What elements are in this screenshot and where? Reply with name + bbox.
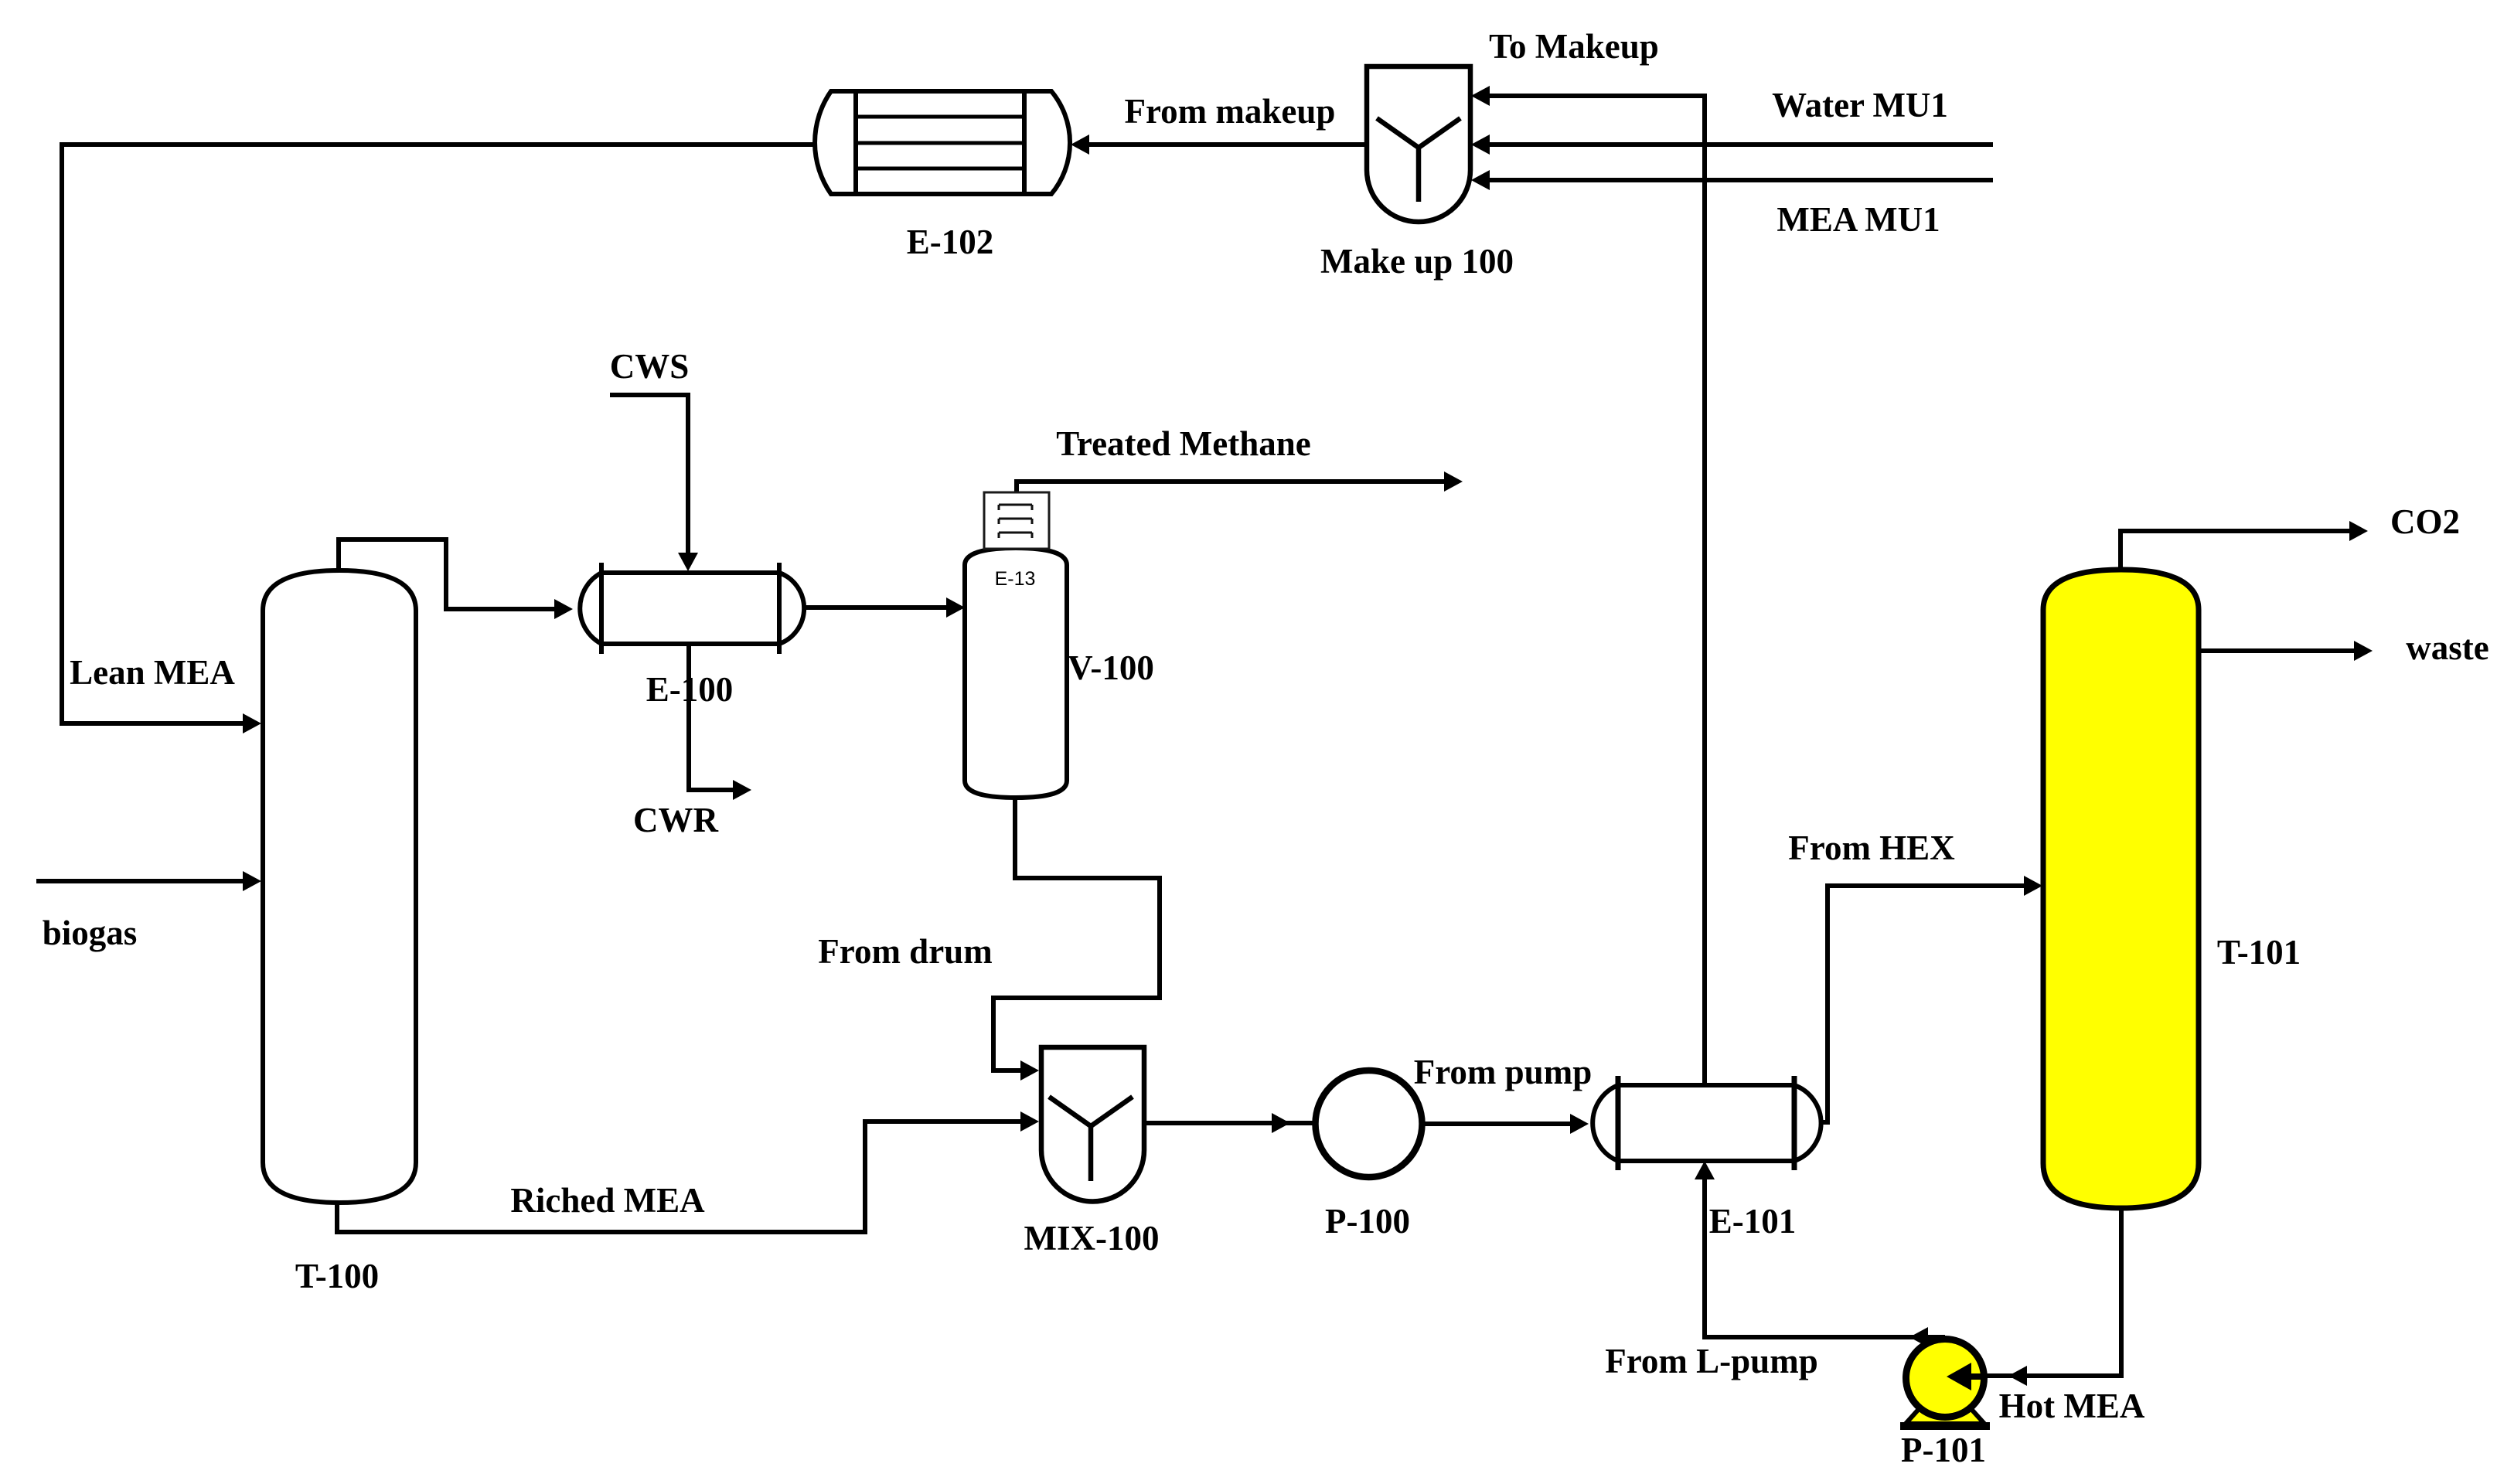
svg-text:From drum: From drum — [818, 932, 992, 971]
svg-text:From L-pump: From L-pump — [1605, 1342, 1817, 1380]
svg-text:T-101: T-101 — [2217, 933, 2301, 972]
column T-101 — [2043, 570, 2199, 1208]
wire Water MU1 feed — [1471, 134, 1993, 155]
column T-100 — [263, 570, 416, 1203]
svg-text:Lean MEA: Lean MEA — [70, 653, 235, 692]
heat exchanger E-100 — [580, 563, 804, 654]
svg-text:Treated Methane: Treated Methane — [1056, 424, 1311, 463]
svg-text:Make up 100: Make up 100 — [1320, 242, 1514, 281]
svg-text:CO2: CO2 — [2390, 502, 2460, 541]
svg-text:T-100: T-100 — [295, 1257, 379, 1295]
wire CWS into E-100 — [610, 395, 698, 571]
svg-text:To Makeup: To Makeup — [1489, 27, 1659, 66]
wire CWR out of E-100 — [689, 644, 751, 800]
svg-text:Water MU1: Water MU1 — [1772, 86, 1948, 124]
wire E-100 outlet to V-100 — [804, 597, 965, 618]
svg-text:MIX-100: MIX-100 — [1024, 1219, 1160, 1258]
svg-text:CWR: CWR — [633, 801, 718, 839]
pump P-101 — [1900, 1339, 1990, 1427]
svg-text:CWS: CWS — [610, 347, 690, 386]
svg-text:waste: waste — [2406, 628, 2488, 667]
wire CO2 off T-101 — [2121, 521, 2368, 572]
vessel V-100 — [965, 548, 1067, 798]
wire E-101 tube outlet To Makeup — [1471, 86, 1705, 1085]
svg-text:From HEX: From HEX — [1788, 829, 1954, 867]
V-100 demister box — [984, 492, 1049, 549]
svg-text:E-100: E-100 — [646, 670, 734, 709]
wire From HEX (E-101 shell outlet to T-101) — [1821, 876, 2042, 1122]
wire waste off T-101 — [2199, 641, 2373, 661]
wire Hot MEA (T-101 bottoms to P-101) — [1984, 1206, 2121, 1386]
wire V-100 bottom (From drum) to MIX-100 — [993, 796, 1160, 1081]
wire From L-pump (P-101 outlet to E-101 shell inlet) — [1695, 1161, 1945, 1347]
svg-text:From makeup: From makeup — [1125, 92, 1336, 131]
heat exchanger E-101 — [1593, 1076, 1821, 1170]
wire From pump (P-100 to E-101) — [1422, 1114, 1589, 1134]
svg-text:P-100: P-100 — [1325, 1202, 1410, 1241]
svg-text:Hot MEA: Hot MEA — [1999, 1387, 2145, 1425]
svg-text:V-100: V-100 — [1068, 648, 1154, 687]
svg-text:E-102: E-102 — [907, 223, 994, 261]
wire Lean MEA recycle (E-102 outlet to T-100) — [62, 145, 815, 733]
svg-text:From pump: From pump — [1414, 1053, 1592, 1091]
mixer MIX-100 — [1041, 1047, 1144, 1202]
wire biogas feed — [36, 871, 261, 891]
wire Treated Methane — [1017, 471, 1463, 495]
svg-text:Riched MEA: Riched MEA — [510, 1181, 705, 1220]
heat exchanger E-102 (shell and tube) — [815, 91, 1070, 194]
wire MEA MU1 feed — [1471, 170, 1993, 190]
svg-text:E-101: E-101 — [1709, 1202, 1797, 1241]
wire From makeup (mixer outlet to E-102) — [1071, 134, 1367, 155]
svg-text:E-13: E-13 — [995, 568, 1036, 590]
pump P-100 — [1316, 1070, 1422, 1177]
wire Riched MEA (T-100 bottoms to MIX-100) — [337, 1111, 1039, 1232]
wire T-100 overhead to E-100 — [339, 539, 573, 619]
svg-text:biogas: biogas — [43, 914, 138, 952]
svg-text:P-101: P-101 — [1901, 1431, 1986, 1469]
mixer Make up 100 — [1367, 66, 1470, 222]
wire MIX-100 outlet to P-100 — [1144, 1113, 1315, 1133]
svg-text:MEA MU1: MEA MU1 — [1776, 200, 1940, 239]
